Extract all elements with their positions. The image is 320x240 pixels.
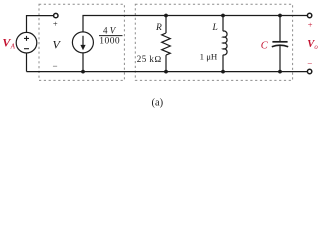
svg-text:−: − <box>307 59 312 69</box>
svg-text:A: A <box>10 43 16 51</box>
value 25 kOhm <box>137 54 162 64</box>
svg-text:−: − <box>53 61 58 71</box>
caption (a) <box>152 98 164 109</box>
wire: VA top lead to input terminal <box>27 16 54 33</box>
junction dots R branch <box>164 14 168 18</box>
value 1 uH <box>200 52 218 62</box>
svg-text:L: L <box>212 23 218 33</box>
label minus (input port) <box>53 61 58 71</box>
wire: current source riser and top rail to output terminal <box>83 16 307 33</box>
label V (input voltage) <box>53 38 62 52</box>
value label 4V/1000 <box>99 26 123 47</box>
svg-text:1 μH: 1 μH <box>200 52 218 62</box>
svg-text:+: + <box>308 20 313 30</box>
label + (output port, red) <box>308 20 313 30</box>
output terminal (top) <box>307 13 311 17</box>
label C <box>261 40 269 51</box>
junction dot: bottom of current source <box>81 70 85 74</box>
svg-text:o: o <box>314 44 318 51</box>
wire: current source bottom lead <box>82 53 84 72</box>
label Vo (red) <box>307 39 318 51</box>
svg-text:C: C <box>261 40 269 51</box>
output terminal (bottom) <box>307 69 311 73</box>
svg-text:25 kΩ: 25 kΩ <box>137 54 162 64</box>
current source U1 (4V/1000) <box>72 32 93 53</box>
junction dots L branch <box>221 14 225 18</box>
wire: bottom rail <box>27 71 308 73</box>
dashed box (RLC load) <box>135 4 292 80</box>
svg-text:4 V: 4 V <box>103 26 117 36</box>
inductor L <box>223 16 227 72</box>
label R <box>155 23 162 33</box>
svg-text:R: R <box>155 23 162 33</box>
capacitor C <box>272 16 288 72</box>
svg-text:+: + <box>53 19 58 29</box>
label VA <box>2 35 15 50</box>
label + (input port) <box>53 19 58 29</box>
voltage source VA <box>16 32 37 53</box>
input terminal (top) <box>54 13 58 17</box>
label minus (output port, red) <box>307 59 312 69</box>
resistor R <box>162 16 171 72</box>
wire: VA bottom lead down to bottom rail <box>26 53 28 72</box>
svg-text:1000: 1000 <box>99 36 120 46</box>
svg-text:(a): (a) <box>152 98 164 109</box>
dashed box (amplifier model) <box>39 4 124 80</box>
junction dots C branch <box>278 14 282 18</box>
label L <box>212 23 218 33</box>
